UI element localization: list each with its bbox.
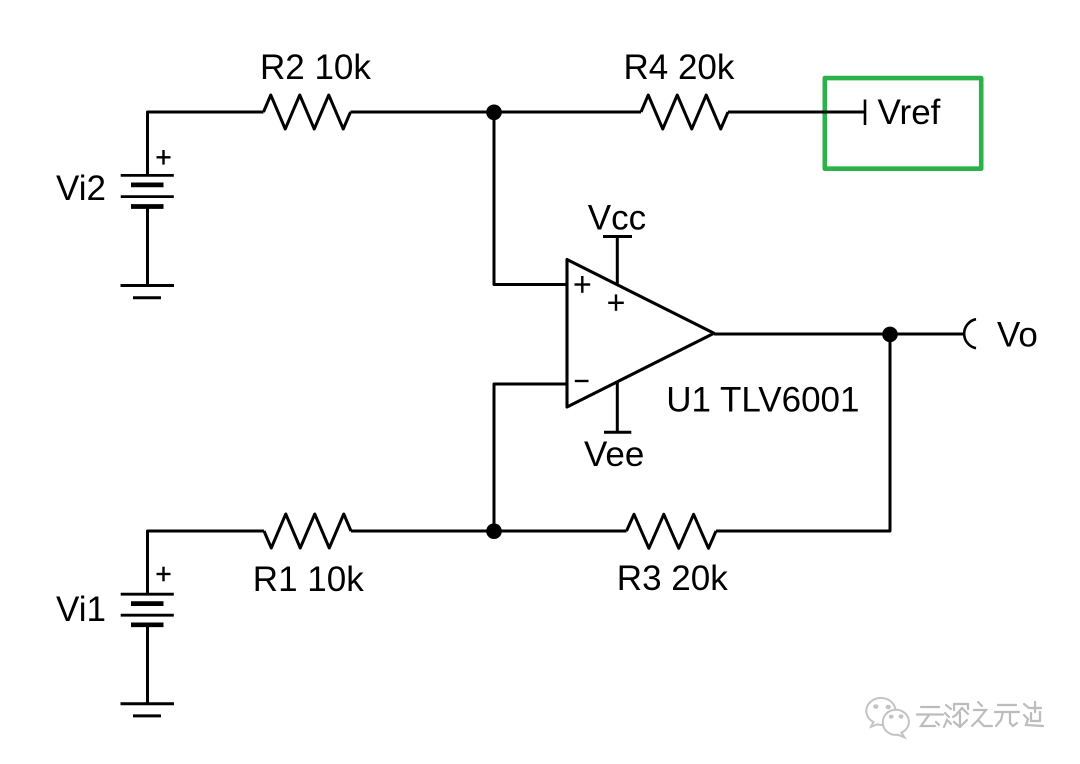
green highlight box around Vref xyxy=(825,78,981,169)
Vcc supply bar xyxy=(603,235,632,238)
wire node C up to op-amp inverting input xyxy=(494,384,567,531)
terminal tick Vref xyxy=(864,100,867,126)
battery Vi2 xyxy=(121,175,174,206)
resistor R4 xyxy=(641,95,728,129)
resistor R3 xyxy=(627,514,717,548)
wire top rail left: battery Vi2 to R2 xyxy=(148,112,264,175)
resistor R2 xyxy=(264,95,351,129)
wire Vi2 to ground xyxy=(146,207,149,286)
Vcc supply stub xyxy=(616,237,619,285)
plus marker of Vi2 xyxy=(157,150,171,165)
wire node A down to op-amp non-inverting input xyxy=(494,112,567,285)
svg-text:Vi2: Vi2 xyxy=(56,169,106,208)
terminal arc Vo xyxy=(964,319,976,348)
Vee supply bar xyxy=(604,431,631,434)
svg-text:R3 20k: R3 20k xyxy=(617,559,728,598)
wire R1 to battery Vi1 xyxy=(148,531,265,594)
ground (Vi1) xyxy=(121,704,175,716)
wire node B down to R3 xyxy=(716,334,890,531)
wire node B to Vo terminal xyxy=(890,333,964,336)
svg-text:Vi1: Vi1 xyxy=(56,590,106,629)
svg-text:R2 10k: R2 10k xyxy=(260,48,371,87)
watermark text yun shen zhi wu ji xyxy=(917,702,1043,727)
op-amp U1 xyxy=(567,260,714,408)
wire op-amp output to node B xyxy=(714,333,890,336)
svg-text:Vee: Vee xyxy=(584,435,644,474)
svg-text:U1 TLV6001: U1 TLV6001 xyxy=(666,381,859,420)
positive supply marker xyxy=(608,294,624,310)
battery Vi1 xyxy=(121,594,174,625)
wire R3 to node C xyxy=(494,530,627,533)
Vee supply stub xyxy=(616,382,619,432)
plus marker of Vi1 xyxy=(157,567,171,582)
svg-text:R1 10k: R1 10k xyxy=(253,560,364,599)
wire Vi1 to ground xyxy=(146,625,149,704)
wire node C to R1 xyxy=(351,530,494,533)
node C junction dot xyxy=(486,523,502,539)
node A junction dot xyxy=(486,105,502,121)
resistor R1 xyxy=(264,514,351,548)
ground (Vi2) xyxy=(121,286,175,298)
svg-text:Vref: Vref xyxy=(878,93,941,132)
svg-text:Vo: Vo xyxy=(997,315,1038,354)
watermark logo WeChat bubbles xyxy=(866,698,909,738)
wire R2 to node A xyxy=(351,111,495,114)
node B junction dot xyxy=(882,327,898,343)
svg-text:R4 20k: R4 20k xyxy=(624,48,735,87)
wire node A to R4 xyxy=(494,111,641,114)
svg-text:Vcc: Vcc xyxy=(588,199,646,238)
non-inverting input marker xyxy=(575,276,591,293)
wire R4 to Vref terminal xyxy=(728,111,865,114)
inverting input marker xyxy=(575,380,589,382)
